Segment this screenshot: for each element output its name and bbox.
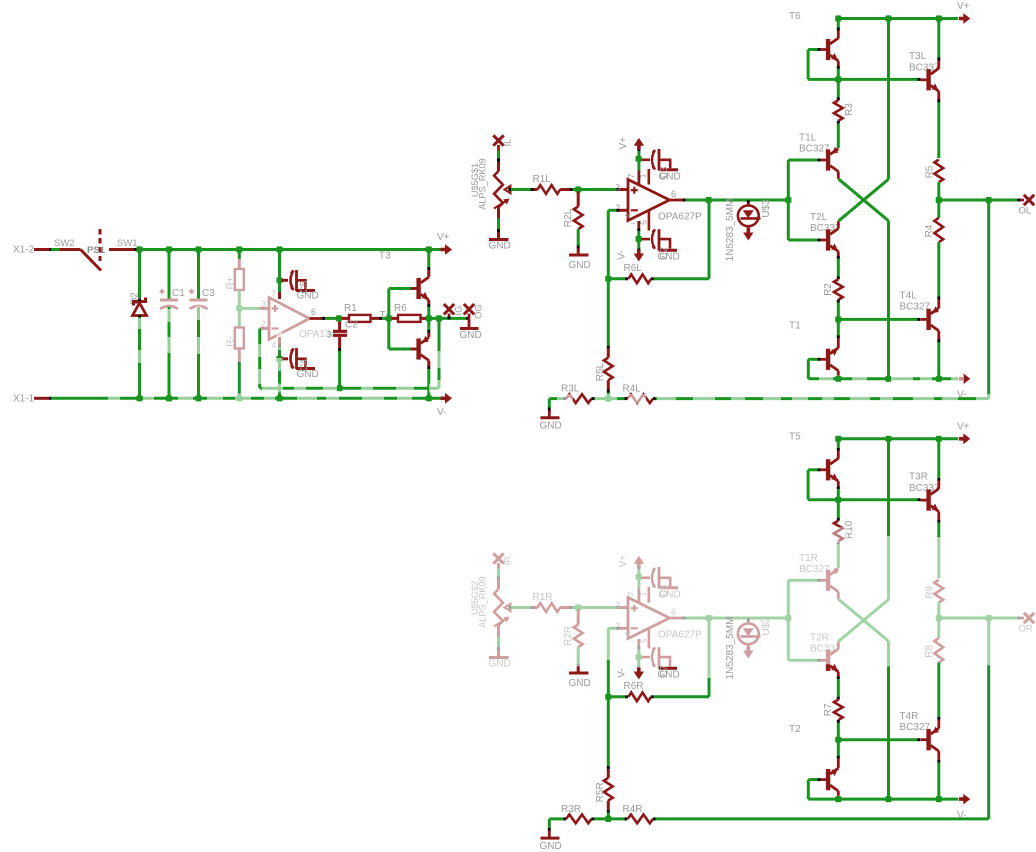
wire node to opamp +input (239, 307, 259, 310)
capacitor C3 bypass (V+) (642, 159, 651, 162)
svg-text:T2: T2 (789, 724, 801, 735)
resistor R5 (934, 160, 943, 183)
pin IL input (no-connect) (493, 135, 503, 145)
ground GND (bottom divider) (548, 819, 551, 828)
svg-text:R3L: R3L (561, 384, 580, 395)
svg-text:V+: V+ (618, 137, 629, 150)
svg-text:C2: C2 (345, 320, 358, 331)
node T3/T4 output junction (426, 315, 432, 321)
supply arrow V- (op-amp U2) (637, 221, 640, 229)
pin OG (no-connect) (464, 304, 474, 314)
svg-text:R6R: R6R (624, 681, 644, 692)
supply arrow V- (op-amp U3) (637, 639, 640, 647)
wire output row to bases (686, 617, 789, 620)
wire X1-2 to switch (51, 248, 60, 251)
node op-amp V- junction (636, 654, 642, 660)
resistor R- (238, 308, 241, 327)
svg-text:R4R: R4R (623, 804, 643, 815)
resistor R5R (607, 697, 610, 766)
wire C1 column lower (168, 307, 171, 398)
svg-text:BC327: BC327 (900, 302, 931, 313)
resistor R10 (837, 500, 840, 518)
node junction rail-C1 (166, 246, 172, 252)
pin OR output (no-connect) (1024, 613, 1034, 623)
wire input base column (787, 160, 790, 240)
wire bottom rail V- (section A) (51, 397, 450, 400)
svg-text:R1L: R1L (533, 174, 552, 185)
current diode U$3 1N5283 (747, 200, 750, 203)
node R7 bottom junction (835, 737, 841, 743)
node junction rail-D2 (136, 246, 142, 252)
wire pot wiper to R1L (508, 188, 511, 191)
svg-text:R4L: R4L (623, 384, 642, 395)
svg-text:IG: IG (454, 305, 465, 315)
svg-text:R2L: R2L (563, 208, 574, 227)
svg-text:3: 3 (615, 183, 620, 193)
wire base loop lower (to T4 base) (387, 318, 390, 349)
svg-text:3: 3 (261, 299, 266, 309)
wire crossover X (collector diagonals) (838, 179, 888, 221)
svg-text:C8: C8 (659, 584, 670, 597)
svg-text:T1: T1 (789, 321, 801, 332)
svg-text:R6: R6 (394, 303, 407, 314)
wire C1 column upper (168, 250, 171, 300)
wire input base column (787, 580, 790, 660)
supply arrow V+ (section A) (441, 244, 453, 255)
svg-text:SW1: SW1 (117, 238, 138, 249)
svg-text:GND: GND (460, 330, 482, 341)
node junction rail-T3 (426, 246, 432, 252)
svg-text:V-: V- (617, 250, 628, 259)
ground flag GND (V- bypass) (659, 667, 677, 670)
op-amp U3 OPA627P (628, 598, 670, 639)
wire T6 junction to T3L base (838, 78, 917, 81)
svg-text:4: 4 (272, 340, 277, 350)
node op-amp V- junction (636, 236, 642, 242)
svg-text:GND: GND (569, 260, 591, 271)
svg-text:1N5283_5MM: 1N5283_5MM (725, 617, 736, 680)
svg-text:R2R: R2R (563, 626, 574, 646)
node output OR junction (986, 615, 992, 621)
wire bottom rail V- (channel L) (808, 377, 958, 380)
wire V+ drop (X to top rail) (887, 439, 890, 537)
node input junction R1R/R2R (575, 604, 581, 610)
pin IG (no-connect) (444, 304, 454, 314)
actuator PS1 dashed link (99, 229, 102, 261)
svg-text:R2: R2 (823, 283, 834, 296)
svg-text:OPA627P: OPA627P (658, 630, 702, 641)
svg-text:R8: R8 (924, 644, 935, 657)
svg-text:V+: V+ (957, 1, 970, 12)
ground R2R (569, 672, 589, 675)
wire V- drop (X to bottom rail) (887, 221, 890, 379)
node input junction R1L/R2L (575, 186, 581, 192)
svg-text:R5: R5 (924, 165, 935, 178)
node R6R feedback junction (605, 694, 611, 700)
node R1-R6 base node junction (386, 315, 392, 321)
svg-text:C3: C3 (202, 288, 215, 299)
wire OL row (939, 199, 1018, 202)
svg-text:T4L: T4L (900, 291, 918, 302)
resistor R2R (577, 610, 580, 625)
op-amp U1 pin 2 stub (260, 327, 270, 330)
capacitor C7 bypass (V-) (642, 656, 651, 659)
node output OL junction (986, 197, 992, 203)
wire feedback (pin2 to output sense) (258, 329, 261, 389)
ground flag GND (OG) (468, 318, 471, 327)
op-amp U3 output pin 6 (670, 617, 684, 620)
wire output sense riser (right edge) (987, 200, 990, 399)
capacitor C2 bypass (V-) (642, 238, 651, 241)
op-amp U2 OPA627P (628, 180, 670, 221)
svg-text:T6: T6 (789, 11, 801, 22)
svg-text:→: → (629, 636, 637, 645)
svg-text:GND: GND (540, 421, 562, 432)
svg-text:V-: V- (957, 390, 966, 401)
svg-text:R7: R7 (823, 703, 834, 716)
resistor R7 (837, 672, 840, 677)
svg-text:R1: R1 (344, 303, 357, 314)
svg-text:GND: GND (540, 841, 562, 852)
wire junction to T4R base (838, 738, 917, 741)
wire V+ drop (X to top rail) (887, 19, 890, 180)
wire feedback riser to output (708, 678, 711, 697)
wire feedback riser to output (708, 200, 711, 279)
svg-text:R1R: R1R (533, 592, 553, 603)
resistor R8 (937, 618, 940, 638)
wire base loop upper (to T3 base) (387, 289, 390, 319)
svg-text:V-: V- (437, 407, 446, 418)
wire pot wiper to R1R (508, 606, 511, 609)
svg-text:6: 6 (311, 307, 316, 317)
wire output row to OG (429, 317, 467, 320)
svg-text:7: 7 (626, 591, 636, 596)
svg-text:→: → (629, 218, 637, 227)
wire C3 column upper (197, 250, 200, 300)
svg-text:OR: OR (1019, 624, 1033, 635)
node OR row left junction (936, 615, 942, 621)
node op-amp V+ junction (636, 156, 642, 162)
svg-text:V-: V- (957, 810, 966, 821)
node output sense junction (436, 315, 442, 321)
svg-text:SW2: SW2 (54, 238, 75, 249)
supply arrow V+ (op-amp U2) (638, 171, 641, 187)
svg-text:T3L: T3L (909, 51, 927, 62)
capacitor C8 bypass (V+) (642, 576, 651, 579)
node opamp V- junction (276, 356, 282, 362)
svg-text:OPA627P: OPA627P (658, 212, 702, 223)
capacitor C4 bypass (bottom) (282, 357, 289, 360)
resistor R3 (837, 79, 840, 97)
node T5 emitter junction (835, 497, 841, 503)
node R2 bottom junction (835, 316, 841, 322)
svg-text:1N5283_5MM: 1N5283_5MM (725, 199, 736, 262)
wire crossover X (collector diagonals) (838, 599, 888, 641)
ground GND (bottom divider) (548, 399, 551, 408)
svg-text:2: 2 (261, 319, 266, 329)
svg-text:BC327: BC327 (900, 722, 931, 733)
svg-text:OL: OL (1019, 206, 1032, 217)
node base column junction (785, 615, 791, 621)
wire D2 column lower (138, 317, 141, 398)
wire output row to bases (686, 199, 789, 202)
wire opamp V+ pin (278, 250, 281, 281)
op-amp U1 output pin 6 (310, 317, 323, 320)
op-amp U1 pin 3 stub (260, 307, 270, 310)
svg-text:7: 7 (626, 173, 636, 178)
wire OR row (939, 617, 1018, 620)
supply arrow V- (channel L) (959, 373, 971, 384)
wire T5 junction to T3R base (838, 498, 917, 501)
pin OL output (no-connect) (1024, 195, 1034, 205)
op-amp U1 OPA134 (269, 298, 310, 340)
svg-text:T4R: T4R (900, 711, 919, 722)
ground flag GND (opamp top bypass) (296, 289, 315, 292)
ground flag GND (V+ bypass) (660, 586, 679, 589)
node junctions bottom rail (136, 395, 142, 401)
node OL row left junction (936, 197, 942, 203)
ground U$5G$2 (pot) (489, 656, 509, 659)
svg-text:PS1: PS1 (87, 245, 106, 256)
svg-text:OG: OG (474, 304, 485, 319)
svg-text:T3R: T3R (909, 471, 928, 482)
node output junction (feedback tap) (706, 197, 712, 203)
svg-text:C3: C3 (659, 166, 670, 179)
svg-text:C1: C1 (172, 288, 185, 299)
svg-text:7: 7 (272, 289, 277, 299)
svg-text:U$2: U$2 (761, 617, 772, 636)
wire C3 column lower (197, 307, 200, 398)
ground flag GND (V+ bypass) (660, 168, 679, 171)
node bottom divider junction (605, 396, 611, 402)
resistor R4 (937, 200, 940, 218)
capacitor C2 (338, 322, 341, 331)
wire output sense riser (right edge) (987, 618, 990, 665)
svg-text:R9: R9 (924, 585, 935, 598)
svg-text:C4: C4 (299, 358, 310, 371)
svg-text:6: 6 (671, 189, 676, 199)
wire R- lower pin (238, 349, 241, 363)
resistor R2L (577, 192, 580, 207)
capacitor C5 bypass (top) (282, 279, 289, 282)
svg-text:V+: V+ (957, 421, 970, 432)
svg-text:IL: IL (503, 139, 514, 147)
svg-text:X1-1: X1-1 (13, 394, 35, 405)
node opamp V+ junction (276, 277, 282, 283)
svg-text:T2R: T2R (810, 632, 829, 643)
node junction rail-opamp V+ (276, 246, 282, 252)
ground U$5G$1 (pot) (489, 238, 509, 241)
svg-text:GND: GND (569, 678, 591, 689)
node base column junction (785, 197, 791, 203)
svg-text:6: 6 (671, 607, 676, 617)
wire R+ to node (238, 290, 241, 308)
svg-text:R3R: R3R (561, 804, 581, 815)
wire D2 column upper (138, 250, 141, 299)
svg-text:GND: GND (489, 659, 511, 670)
node R6L feedback junction (605, 276, 611, 282)
svg-text:C5: C5 (299, 280, 310, 293)
node opamp output junction (336, 315, 342, 321)
node junction rail-R+ (236, 246, 242, 252)
node R+/R- divider (236, 305, 242, 311)
wire bottom rail V- (channel R) (808, 798, 958, 801)
wire V- drop (X to bottom rail) (887, 641, 890, 666)
node output junction (feedback tap) (706, 615, 712, 621)
svg-text:ALPS_RK09: ALPS_RK09 (477, 576, 487, 628)
node C2-feedback junction (337, 385, 343, 391)
svg-text:V-: V- (617, 668, 628, 677)
resistor R5L (607, 279, 610, 346)
svg-text:V+: V+ (437, 232, 450, 243)
svg-text:T2L: T2L (810, 212, 828, 223)
svg-text:T1R: T1R (799, 553, 818, 564)
svg-text:R5L: R5L (595, 362, 606, 381)
wire opamp V- pin (278, 337, 281, 345)
node junction rail-C3 (195, 246, 201, 252)
wire top rail V+ (channel R) (838, 437, 958, 440)
node op-amp V+ junction (636, 574, 642, 580)
transistor T4 (416, 338, 420, 359)
svg-text:R5R: R5R (595, 782, 606, 802)
svg-text:IR: IR (503, 556, 514, 566)
watermark fade overlays (108, 306, 997, 542)
svg-text:C2: C2 (659, 247, 670, 260)
svg-text:3: 3 (327, 330, 332, 340)
node bottom divider junction (605, 816, 611, 822)
svg-text:R4: R4 (924, 224, 935, 237)
node T6 emitter junction (835, 76, 841, 82)
svg-text:3: 3 (615, 601, 620, 611)
ground flag GND (V- bypass) (659, 249, 677, 252)
ground flag GND (opamp bottom bypass) (296, 367, 315, 370)
ground R2L (569, 254, 589, 257)
svg-text:BC327: BC327 (799, 144, 830, 155)
wire top rail V+ (section A) (137, 248, 443, 251)
op-amp U2 output pin 6 (670, 199, 684, 202)
wire junction to T4L base (838, 318, 917, 321)
wire opamp V- to bottom rail (278, 359, 281, 399)
wire op-amp -input (pin 2) net (608, 209, 616, 212)
svg-text:T5: T5 (789, 431, 801, 442)
svg-text:T1L: T1L (799, 133, 817, 144)
svg-text:R6L: R6L (624, 263, 643, 274)
svg-text:BC327: BC327 (799, 564, 830, 575)
svg-text:R3: R3 (844, 103, 855, 116)
wire top rail V+ (channel L) (838, 17, 958, 20)
svg-text:GND: GND (489, 241, 511, 252)
supply arrow V- (channel R) (959, 794, 971, 805)
resistor R9 (934, 580, 943, 603)
pin IR input (no-connect) (493, 553, 503, 563)
supply arrow V+ (channel L) (959, 13, 971, 24)
svg-text:C7: C7 (659, 665, 670, 678)
wire to op-amp +input (578, 188, 616, 191)
svg-text:V+: V+ (618, 555, 629, 568)
wire op-amp -input (pin 2) net (608, 627, 616, 630)
supply arrow V+ (op-amp U3) (638, 589, 641, 605)
current diode U$2 1N5283 (747, 618, 750, 621)
wire to op-amp +input (578, 606, 616, 609)
supply arrow V+ (channel R) (959, 433, 971, 444)
supply arrow V- (section A) (441, 393, 453, 404)
wire R+ upper pin (238, 250, 241, 260)
svg-text:T3: T3 (379, 251, 391, 262)
svg-text:ALPS_RK09: ALPS_RK09 (477, 158, 487, 210)
resistor R2 (837, 251, 840, 256)
svg-text:U$3: U$3 (761, 199, 772, 218)
svg-text:X1-2: X1-2 (13, 245, 35, 256)
